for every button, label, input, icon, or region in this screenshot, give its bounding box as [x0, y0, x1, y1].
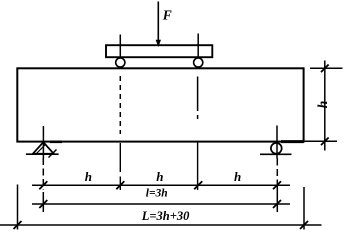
extension line L left [17, 185, 19, 230]
roller support circle [271, 143, 282, 154]
load extension line right [197, 142, 199, 190]
left support centerline [42, 126, 44, 158]
right support centerline [276, 126, 278, 159]
tick dim1 at support left [39, 181, 47, 189]
left support centerline dashed [42, 158, 44, 190]
dimension line h vertical [324, 61, 326, 151]
tick dim1 at load right [194, 181, 202, 189]
test beam [17, 68, 303, 141]
tick dim3 right [300, 221, 308, 229]
svg-text:l=3h: l=3h [146, 188, 168, 200]
roller R2 [194, 58, 203, 67]
right support extension solid [276, 182, 278, 212]
svg-text:h: h [156, 169, 163, 184]
svg-text:h: h [234, 169, 241, 184]
left support extension solid [42, 192, 44, 212]
right support centerline dashed [276, 159, 278, 183]
tick h-dim top [321, 65, 329, 73]
tick h-dim bottom [321, 138, 329, 146]
ground hatch left [49, 150, 57, 158]
triangle hatch inner [37, 144, 47, 154]
tick dim3 left [14, 221, 22, 229]
tick dim1 at support right [273, 181, 281, 189]
extension line L right [303, 187, 305, 230]
load extension line left upper [119, 143, 121, 172]
roller R1 [116, 58, 125, 67]
force arrow F [156, 2, 161, 48]
ground line left [26, 153, 59, 155]
extension line h-dim top [310, 67, 343, 69]
load tick right [197, 34, 199, 59]
beam bottom thick segment at left support [50, 141, 62, 144]
pinned support triangle [33, 142, 54, 154]
beam bottom thick segment right [281, 140, 304, 143]
load extension line left lower [119, 177, 121, 191]
crack line right [197, 77, 199, 112]
tick dim1 at load left [116, 181, 124, 189]
tick dim2 right [273, 200, 281, 208]
dimension line h h h [32, 184, 290, 186]
load tick left [119, 35, 121, 59]
svg-text:L=3h+30: L=3h+30 [141, 209, 190, 223]
dimension line l=3h [32, 203, 290, 205]
tick dim2 left [39, 200, 47, 208]
svg-text:h: h [315, 101, 330, 109]
crack line right dash [197, 115, 199, 119]
spreader beam [106, 45, 212, 57]
extension line h-dim bottom [305, 140, 338, 142]
svg-text:F: F [162, 7, 172, 22]
dimension line L=3h+30 [0, 224, 322, 226]
crack line left [119, 76, 121, 134]
ground line right [260, 153, 292, 155]
svg-text:h: h [85, 169, 92, 184]
